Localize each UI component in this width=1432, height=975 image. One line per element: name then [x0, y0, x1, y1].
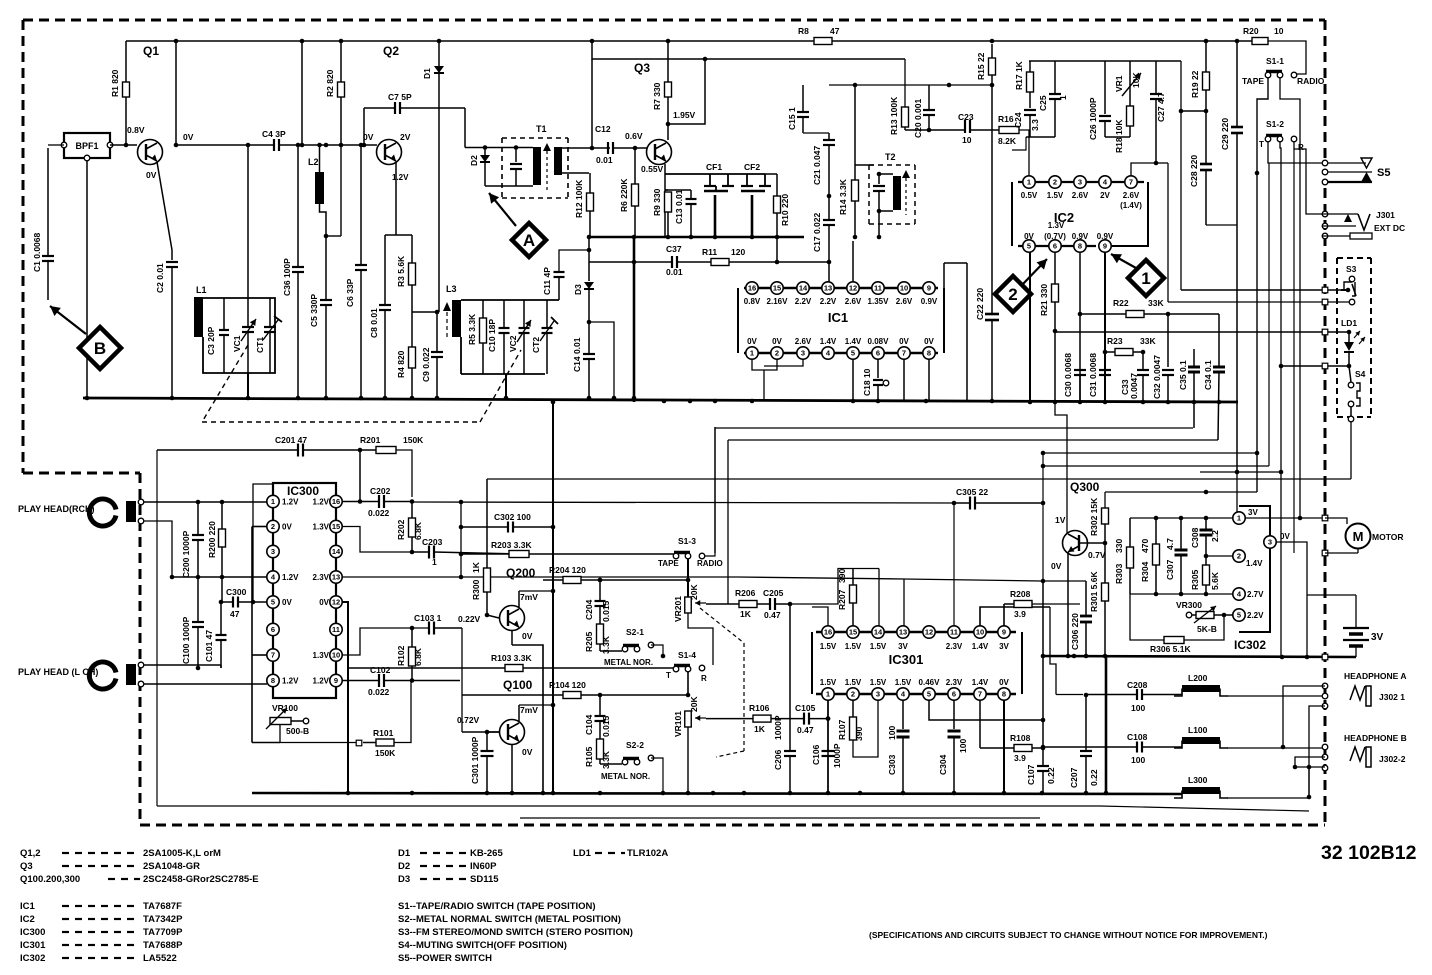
svg-text:0.9V: 0.9V [921, 297, 938, 306]
svg-text:33K: 33K [1148, 298, 1164, 308]
svg-text:KB-265: KB-265 [470, 848, 503, 859]
wire T1 in [465, 145, 533, 150]
wire [342, 577, 1041, 626]
resistor R22 [1080, 298, 1219, 318]
resistor R202 [396, 502, 423, 555]
node voltage 0.6V [625, 131, 643, 141]
wire arrow [50, 306, 86, 334]
IC300 pin 7 [267, 649, 279, 661]
resistor R303 [1114, 518, 1134, 594]
capacitor C35 [1178, 349, 1200, 428]
inductor L100 [1174, 725, 1322, 748]
svg-text:C29 220: C29 220 [1220, 118, 1230, 150]
svg-text:2.16V: 2.16V [767, 297, 789, 306]
capacitor C201 [275, 435, 360, 457]
svg-text:1.5V: 1.5V [820, 678, 837, 687]
capacitor C3 [206, 298, 229, 373]
IC301 pin 6 [946, 678, 963, 700]
wire [980, 607, 1056, 695]
test point diamond B [79, 327, 121, 369]
svg-text:C204: C204 [584, 599, 594, 620]
svg-text:0.015: 0.015 [601, 600, 611, 622]
svg-text:2SA1048-GR: 2SA1048-GR [143, 861, 200, 872]
svg-text:330: 330 [1114, 539, 1124, 553]
IC1 pin 12 [845, 282, 862, 306]
svg-text:S4: S4 [1355, 369, 1366, 379]
wire L1 box [203, 298, 275, 373]
node voltage 1.2V [392, 173, 409, 182]
svg-text:R207: R207 [837, 589, 847, 610]
wire Q1 collector [125, 41, 127, 145]
svg-text:VR300: VR300 [1176, 600, 1202, 610]
svg-text:12: 12 [332, 598, 340, 607]
svg-text:L300: L300 [1188, 775, 1208, 785]
svg-text:R302 15K: R302 15K [1089, 497, 1099, 536]
svg-text:L200: L200 [1188, 673, 1208, 683]
svg-text:13: 13 [824, 284, 832, 293]
wire S1-2 T down [1268, 142, 1322, 466]
wire Q300 base [1079, 541, 1107, 546]
svg-text:R6 220K: R6 220K [619, 178, 629, 212]
capacitor C10 [487, 300, 510, 374]
IC2 pin 1 [1021, 176, 1038, 200]
resistor R9 [652, 188, 672, 237]
resistor R200 [207, 502, 226, 577]
svg-text:R104 120: R104 120 [549, 680, 586, 690]
wire IC2 pin5 down [1029, 252, 1031, 402]
wire LCH hot [144, 665, 221, 668]
capacitor C2 [155, 262, 178, 398]
svg-text:R306 5.1K: R306 5.1K [1150, 644, 1191, 654]
svg-text:2.3V: 2.3V [946, 678, 963, 687]
svg-text:R208: R208 [1010, 589, 1031, 599]
capacitor C28 [1189, 111, 1237, 225]
node [346, 791, 1109, 796]
svg-text:CT1: CT1 [255, 337, 265, 353]
node [174, 39, 1240, 44]
IC1 pin 13 [820, 282, 837, 306]
svg-text:R1 820: R1 820 [110, 69, 120, 97]
svg-text:1: 1 [826, 690, 830, 699]
wire [687, 559, 689, 597]
wire vertical [300, 41, 305, 147]
svg-text:IC302: IC302 [20, 953, 45, 964]
svg-text:R304: R304 [1140, 561, 1150, 582]
IC300 pin 11 [330, 623, 342, 635]
IC301 pin 8 [998, 678, 1010, 700]
wire [1276, 542, 1307, 553]
svg-text:1.5V: 1.5V [870, 642, 887, 651]
inductor L3 [446, 284, 461, 337]
svg-text:C30 0.0068: C30 0.0068 [1063, 353, 1073, 397]
svg-text:S1-1: S1-1 [1266, 56, 1284, 66]
svg-text:IC300: IC300 [20, 927, 45, 938]
ceramic filter CF2 [723, 162, 771, 237]
drawing number [1321, 842, 1417, 864]
resistor R201 [360, 435, 424, 497]
trimmer capacitor CT1 [255, 298, 282, 373]
wire Q1 emitter [157, 162, 172, 260]
svg-text:1K: 1K [754, 724, 766, 734]
IC300 pin 2 [267, 520, 293, 532]
wire [904, 59, 906, 107]
wire [1306, 553, 1308, 658]
svg-text:C37: C37 [666, 244, 682, 254]
dashed board outline top [23, 19, 1325, 22]
wire IC301 pin8 down [1003, 700, 1005, 793]
variable capacitor VC1 [232, 298, 256, 373]
capacitor C104 [584, 695, 611, 739]
switch S4 [1348, 366, 1365, 422]
svg-text:C35 0.1: C35 0.1 [1178, 360, 1188, 390]
svg-text:150K: 150K [375, 748, 396, 758]
svg-text:0V: 0V [183, 132, 194, 142]
capacitor C7 [364, 92, 465, 145]
svg-text:1: 1 [1141, 269, 1150, 288]
IC1 pin 8 [923, 337, 935, 359]
wire [1245, 517, 1322, 519]
node voltage 0V [146, 170, 157, 180]
svg-text:100: 100 [887, 726, 897, 740]
svg-text:S1-2: S1-2 [1266, 119, 1284, 129]
svg-text:9: 9 [927, 284, 931, 293]
capacitor C108 [1127, 732, 1182, 765]
wire [1055, 329, 1351, 335]
wire tuning arrow [443, 302, 451, 340]
svg-text:R23: R23 [1107, 336, 1123, 346]
diode D1 [422, 41, 444, 312]
svg-text:C25: C25 [1038, 95, 1048, 111]
resistor R3 [396, 235, 416, 312]
svg-text:1: 1 [1058, 95, 1068, 100]
svg-text:7: 7 [1129, 178, 1133, 187]
legend IC300 [20, 927, 183, 938]
wire D3 bottom [589, 322, 614, 398]
resistor R300 [471, 479, 491, 617]
svg-text:R107: R107 [837, 719, 847, 740]
svg-text:1.2V: 1.2V [313, 498, 330, 507]
capacitor C302 [461, 512, 553, 533]
svg-text:IC1: IC1 [20, 901, 36, 912]
svg-text:470: 470 [1140, 539, 1150, 553]
svg-text:2.6V: 2.6V [845, 297, 862, 306]
IC300 pin 14 [330, 545, 342, 557]
legend D1 [398, 848, 503, 859]
node voltage 0.8V [127, 125, 145, 135]
svg-text:12: 12 [849, 284, 857, 293]
svg-text:C17 0.022: C17 0.022 [812, 213, 822, 252]
node voltage 0.72V [457, 715, 480, 725]
resistor R302 [1089, 492, 1109, 543]
wire [1043, 580, 1086, 582]
svg-text:7: 7 [271, 651, 275, 660]
transformer T2 core [902, 170, 910, 215]
IC1 pin 11 [868, 282, 890, 306]
IC300 pin 15 [313, 520, 343, 532]
wire [172, 575, 267, 580]
svg-text:0V: 0V [747, 337, 757, 346]
svg-text:20K: 20K [689, 584, 699, 600]
svg-text:VR201: VR201 [673, 596, 683, 622]
potentiometer VR101 [673, 696, 753, 737]
svg-text:C31 0.0068: C31 0.0068 [1088, 353, 1098, 397]
svg-text:R103 3.3K: R103 3.3K [491, 653, 532, 663]
svg-text:120: 120 [731, 247, 745, 257]
inductor L1 [194, 285, 207, 337]
svg-text:IC1: IC1 [828, 310, 848, 325]
wire Q200 collector [519, 591, 553, 607]
svg-text:8: 8 [1078, 242, 1082, 251]
svg-text:R108: R108 [1010, 733, 1031, 743]
legend Q3 [20, 861, 200, 872]
IC300 pin 10 [313, 649, 343, 661]
transformer T2 secondary [879, 174, 901, 211]
capacitor C21 [812, 133, 835, 198]
wire [812, 607, 828, 626]
potentiometer VR100 [266, 703, 309, 736]
svg-text:15: 15 [332, 522, 340, 531]
wire [435, 680, 460, 683]
svg-text:0V: 0V [924, 337, 934, 346]
node [662, 399, 995, 404]
legend switch [398, 927, 633, 938]
wire vertical [175, 41, 177, 145]
IC2 pin 4 [1099, 176, 1111, 200]
svg-text:2.6V: 2.6V [896, 297, 913, 306]
svg-text:2.7V: 2.7V [1247, 590, 1264, 599]
svg-text:R18 10K: R18 10K [1114, 119, 1124, 153]
svg-text:R11: R11 [702, 247, 717, 257]
IC1 pin 1 [746, 337, 758, 359]
svg-text:TA7342P: TA7342P [143, 914, 183, 925]
svg-text:C7 5P: C7 5P [388, 92, 412, 102]
svg-text:0.015: 0.015 [601, 715, 611, 737]
svg-text:R106: R106 [749, 703, 770, 713]
wire S1-2 R down [1294, 142, 1322, 553]
IC300 pin 4 [267, 571, 299, 583]
svg-text:33K: 33K [1140, 336, 1156, 346]
svg-text:C8 0.01: C8 0.01 [369, 308, 379, 338]
svg-text:C306 220: C306 220 [1070, 613, 1080, 650]
resistor R6 [619, 148, 639, 237]
wire [1281, 366, 1283, 657]
wire [459, 502, 464, 579]
wire [1012, 137, 1055, 150]
svg-text:1K: 1K [740, 609, 752, 619]
svg-text:C11 4P: C11 4P [542, 267, 552, 295]
wire [359, 450, 361, 501]
svg-text:2V: 2V [400, 132, 411, 142]
svg-text:100: 100 [1131, 703, 1145, 713]
capacitor C101 [204, 602, 227, 668]
svg-text:3.9: 3.9 [1014, 609, 1026, 619]
IC1 pin 3 [795, 337, 812, 359]
svg-text:1: 1 [1237, 514, 1241, 523]
svg-text:0.8V: 0.8V [127, 125, 145, 135]
svg-text:0V: 0V [146, 170, 157, 180]
IC1 pin 7 [898, 337, 910, 359]
svg-text:Q1,2: Q1,2 [20, 848, 41, 859]
resistor R21 [1039, 252, 1059, 402]
potentiometer VR1 [1114, 61, 1141, 106]
svg-text:3V: 3V [1371, 632, 1384, 643]
svg-text:Q300: Q300 [1070, 480, 1100, 494]
capacitor C25 [1038, 61, 1068, 137]
wire L1 to rail [247, 145, 249, 398]
svg-text:0V: 0V [363, 132, 374, 142]
resistor R206 [728, 588, 757, 619]
svg-text:0.08V: 0.08V [868, 337, 890, 346]
legend switch [398, 914, 621, 925]
svg-text:R205: R205 [584, 631, 594, 652]
capacitor C202 [342, 486, 414, 518]
capacitor C20 [913, 85, 935, 138]
svg-text:0.46V: 0.46V [919, 678, 941, 687]
svg-text:5K-B: 5K-B [1197, 624, 1217, 634]
motor M [1322, 515, 1403, 556]
capacitor C301 [470, 730, 499, 793]
svg-text:(1.4V): (1.4V) [1120, 201, 1142, 210]
svg-text:VR101: VR101 [673, 711, 683, 737]
svg-text:1.95V: 1.95V [673, 110, 696, 120]
svg-text:D3: D3 [573, 284, 583, 295]
IC2 pin 9 [1097, 232, 1114, 252]
capacitor C23 [958, 112, 999, 145]
svg-text:C208: C208 [1127, 680, 1148, 690]
svg-text:C28 220: C28 220 [1189, 155, 1199, 187]
svg-text:2.3V: 2.3V [946, 642, 963, 651]
svg-text:R20: R20 [1243, 26, 1259, 36]
svg-text:T: T [1259, 140, 1264, 149]
svg-text:4.7: 4.7 [1165, 538, 1175, 550]
svg-text:R202: R202 [396, 519, 406, 540]
svg-text:TAPE: TAPE [658, 559, 679, 568]
wire [905, 129, 965, 131]
dashed board outline left lower [139, 473, 142, 825]
svg-text:C26 1000P: C26 1000P [1088, 97, 1098, 140]
connector headphone A [1283, 671, 1407, 767]
svg-text:R204 120: R204 120 [549, 565, 586, 575]
wire [1041, 581, 1046, 748]
svg-text:16: 16 [332, 497, 340, 506]
IC1 pin 4 [820, 337, 837, 359]
svg-text:(0.7V): (0.7V) [1044, 232, 1066, 241]
IC301 pin 5 [919, 678, 941, 700]
wire [1056, 693, 1088, 698]
legend switch [398, 940, 567, 951]
svg-text:C15 1: C15 1 [787, 107, 797, 130]
IC301 pin 9 [998, 626, 1010, 651]
resistor R208 [1004, 589, 1080, 619]
svg-text:2: 2 [1237, 552, 1241, 561]
dashed gang link [202, 345, 521, 422]
wire [1041, 453, 1046, 583]
svg-text:IN60P: IN60P [470, 861, 497, 872]
resistor R102 [396, 628, 423, 683]
svg-text:C301 1000P: C301 1000P [470, 736, 480, 784]
svg-text:C23: C23 [958, 112, 974, 122]
wire T1 bottom [485, 148, 610, 186]
capacitor C1 [32, 148, 54, 300]
switch S1-2 [1259, 119, 1304, 152]
svg-text:S1-4: S1-4 [678, 650, 696, 660]
node voltage (1.4V) [1120, 201, 1142, 210]
svg-text:10: 10 [332, 651, 340, 660]
variable capacitor VC2 [508, 300, 531, 374]
svg-text:3: 3 [271, 547, 275, 556]
wire long vertical x553 [551, 400, 556, 796]
svg-text:5: 5 [851, 349, 855, 358]
wire S1-1 tape down [1255, 78, 1268, 492]
svg-text:20K: 20K [689, 696, 699, 712]
capacitor C205 [757, 569, 879, 627]
svg-text:2: 2 [775, 349, 779, 358]
svg-text:L1: L1 [196, 285, 207, 295]
integrated circuit IC2 body [1012, 182, 1148, 246]
svg-text:R: R [701, 674, 707, 683]
transistor Q3 label [634, 61, 650, 75]
svg-text:C13 0.01: C13 0.01 [674, 189, 684, 224]
IC1 pin 9 [921, 282, 938, 306]
wire Q300 emitter [1067, 552, 1069, 656]
capacitor C306 [1070, 581, 1092, 656]
wire arrow [1111, 254, 1136, 268]
transformer T2 [869, 152, 915, 224]
wire [687, 672, 689, 695]
svg-text:HEADPHONE A: HEADPHONE A [1344, 671, 1407, 681]
capacitor C32 [1152, 314, 1174, 402]
resistor R104 [462, 680, 690, 699]
resistor R1 [110, 69, 130, 97]
svg-text:11: 11 [332, 625, 340, 634]
svg-text:S3: S3 [1346, 264, 1357, 274]
resistor R101 [363, 681, 411, 759]
svg-text:C2 0.01: C2 0.01 [155, 263, 165, 293]
svg-text:C104: C104 [584, 714, 594, 735]
wire BPF1 bottom lead [86, 161, 88, 398]
transistor Q200 [500, 592, 539, 641]
svg-text:5: 5 [1027, 242, 1031, 251]
svg-text:D2: D2 [469, 155, 479, 166]
wire RCH gnd [144, 521, 174, 579]
capacitor C18 [862, 368, 889, 401]
capacitor C207 [1069, 695, 1099, 793]
svg-text:MOTOR: MOTOR [1372, 532, 1403, 542]
capacitor C6 [345, 145, 367, 398]
dashed board outline notch [23, 472, 140, 475]
svg-text:L2: L2 [308, 157, 319, 167]
svg-text:1K: 1K [471, 561, 481, 573]
wire IC300 pin15 [342, 527, 412, 553]
wire [487, 421, 1351, 479]
svg-text:10K: 10K [1131, 72, 1141, 88]
wire Q100 emitter [511, 745, 513, 793]
IC302 pin 1 [1233, 508, 1259, 524]
svg-text:C18 10: C18 10 [862, 368, 872, 396]
svg-text:METAL NOR.: METAL NOR. [601, 772, 650, 781]
svg-text:R12 100K: R12 100K [574, 179, 584, 218]
legend note [869, 930, 1268, 940]
svg-text:2.6V: 2.6V [795, 337, 812, 346]
svg-text:SD115: SD115 [470, 874, 499, 885]
IC1 pin 14 [795, 282, 812, 306]
IC300 pin 8 [267, 674, 299, 686]
svg-text:C27 4.7: C27 4.7 [1156, 92, 1166, 122]
resistor R5 [467, 300, 487, 374]
resistor R4 [396, 312, 416, 398]
svg-text:3V: 3V [1248, 508, 1258, 517]
resistor R19 [1190, 41, 1210, 113]
